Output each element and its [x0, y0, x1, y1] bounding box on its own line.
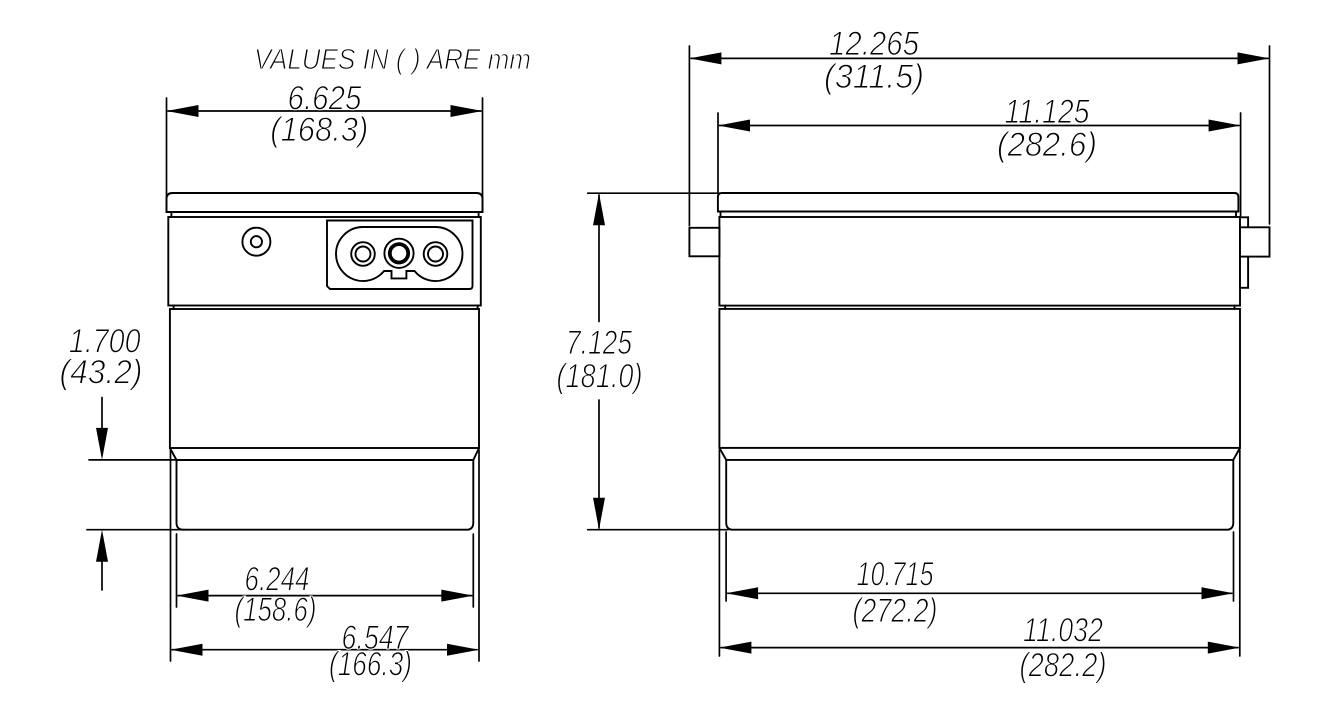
- chamfer left front: [170, 448, 177, 460]
- body seam tick left: [173, 306, 175, 310]
- front view bottom base section: [177, 460, 474, 530]
- dim 12.265 dimension line: [691, 57, 1268, 59]
- terminal center knurled ring: [390, 244, 408, 262]
- svg-text:7.125: 7.125: [566, 324, 632, 362]
- dim 11.032 right arrow: [1208, 642, 1240, 654]
- dim 10.715 extension line left: [725, 532, 727, 601]
- svg-text:(282.6): (282.6): [997, 126, 1097, 164]
- side view upper body section: [719, 217, 1240, 306]
- dim 6.547 extension line left: [170, 450, 172, 661]
- dim 6.547 extension line right: [478, 450, 480, 661]
- svg-text:(282.2): (282.2): [1020, 647, 1107, 685]
- dim 11.125 extension line left: [717, 113, 719, 192]
- side body seam tick left: [724, 306, 726, 309]
- svg-text:(311.5): (311.5): [824, 58, 924, 96]
- dim 1.700 upper arrow (down): [96, 428, 108, 460]
- svg-text:(158.6): (158.6): [235, 591, 317, 629]
- dim 6.625 dimension line: [168, 110, 481, 112]
- svg-text:(272.2): (272.2): [853, 592, 938, 630]
- side view mid body section: [719, 309, 1240, 448]
- dim 7.125 top arrow (up): [593, 193, 605, 225]
- dim 12.265 right arrow: [1238, 52, 1270, 64]
- terminal left outer circle: [351, 242, 375, 266]
- dim 11.125 right arrow: [1209, 120, 1241, 132]
- dim 6.547 left arrow: [171, 644, 203, 656]
- svg-text:(43.2): (43.2): [60, 354, 143, 392]
- dim 7.125 extension line top: [588, 192, 719, 194]
- side view bottom base section: [726, 460, 1233, 530]
- svg-text:(181.0): (181.0): [557, 358, 643, 396]
- lid lip tick left: [170, 212, 172, 217]
- dim 1.700 extension line upper: [89, 459, 176, 461]
- connector recess rectangle: [327, 221, 473, 290]
- dim 1.700 lower leader line: [101, 560, 103, 590]
- dim 7.125 dimension line lower segment: [598, 400, 600, 528]
- dim 7.125 dimension line upper segment: [598, 195, 600, 322]
- dim 6.244 extension line left: [176, 534, 178, 607]
- terminal left inner circle: [356, 247, 371, 262]
- right mounting tab: [1240, 227, 1270, 256]
- vent hole outer circle: [242, 228, 270, 256]
- dim 6.244 extension line right: [472, 534, 474, 607]
- right side rail ledge: [1240, 217, 1248, 287]
- dim 6.244 right arrow: [441, 590, 473, 602]
- dim 10.715 left arrow: [726, 587, 758, 599]
- svg-text:(168.3): (168.3): [270, 111, 368, 149]
- svg-text:10.715: 10.715: [857, 556, 934, 594]
- connector peanut outline: [336, 227, 463, 281]
- terminal center outer circle: [384, 239, 413, 268]
- dim 6.625 extension line left: [166, 98, 168, 212]
- dim 6.244 left arrow: [177, 590, 209, 602]
- dim 10.715 extension line right: [1233, 532, 1235, 601]
- dim 12.265 extension line right: [1269, 46, 1271, 224]
- lid lip tick right: [478, 212, 480, 217]
- dim 1.700 upper leader line: [101, 398, 103, 430]
- dim 11.125 dimension line: [720, 125, 1240, 127]
- dim 7.125 bottom arrow (down): [593, 498, 605, 530]
- svg-text:11.032: 11.032: [1023, 612, 1103, 650]
- dim 10.715 dimension line: [728, 592, 1233, 594]
- dim 7.125 extension line bottom: [588, 529, 728, 531]
- terminal right outer circle: [424, 242, 448, 266]
- dim 6.244 dimension line: [178, 595, 472, 597]
- chamfer right front: [473, 448, 479, 460]
- dim 1.700 lower arrow (up): [96, 530, 108, 562]
- side view lid/cover: [718, 193, 1239, 212]
- dim 11.032 dimension line: [721, 647, 1238, 649]
- dim 1.700 extension line lower: [87, 529, 185, 531]
- svg-text:(166.3): (166.3): [329, 646, 412, 684]
- side chamfer right: [1233, 448, 1240, 460]
- dim 11.032 extension line left: [718, 450, 720, 656]
- front view mid body section: [170, 309, 479, 448]
- side lid lip tick right: [1235, 212, 1237, 218]
- front view upper body section: [168, 217, 481, 306]
- terminal right inner circle: [428, 247, 443, 262]
- dim 6.547 dimension line: [172, 649, 477, 651]
- side body seam tick right: [1234, 306, 1236, 309]
- vent hole inner circle: [251, 236, 262, 247]
- body seam tick right: [477, 306, 479, 310]
- dim 6.547 right arrow: [447, 644, 479, 656]
- dim 6.625 left arrow: [167, 105, 199, 117]
- dim 6.625 extension line right: [482, 98, 484, 212]
- dim 12.265 left arrow: [689, 52, 721, 64]
- dim 11.125 extension line right: [1240, 113, 1242, 216]
- dim 11.125 left arrow: [718, 120, 750, 132]
- dim 11.032 extension line right: [1239, 450, 1241, 656]
- dim 12.265 extension line left: [688, 46, 690, 226]
- front view lid/cover: [167, 193, 483, 212]
- dim 6.625 right arrow: [451, 105, 483, 117]
- left mounting tab: [689, 228, 719, 256]
- side chamfer left: [719, 448, 726, 460]
- dim 10.715 right arrow: [1202, 587, 1234, 599]
- svg-text:VALUES IN ( ) ARE mm: VALUES IN ( ) ARE mm: [254, 44, 531, 76]
- dim 11.032 left arrow: [719, 642, 751, 654]
- side lid lip tick left: [720, 212, 722, 218]
